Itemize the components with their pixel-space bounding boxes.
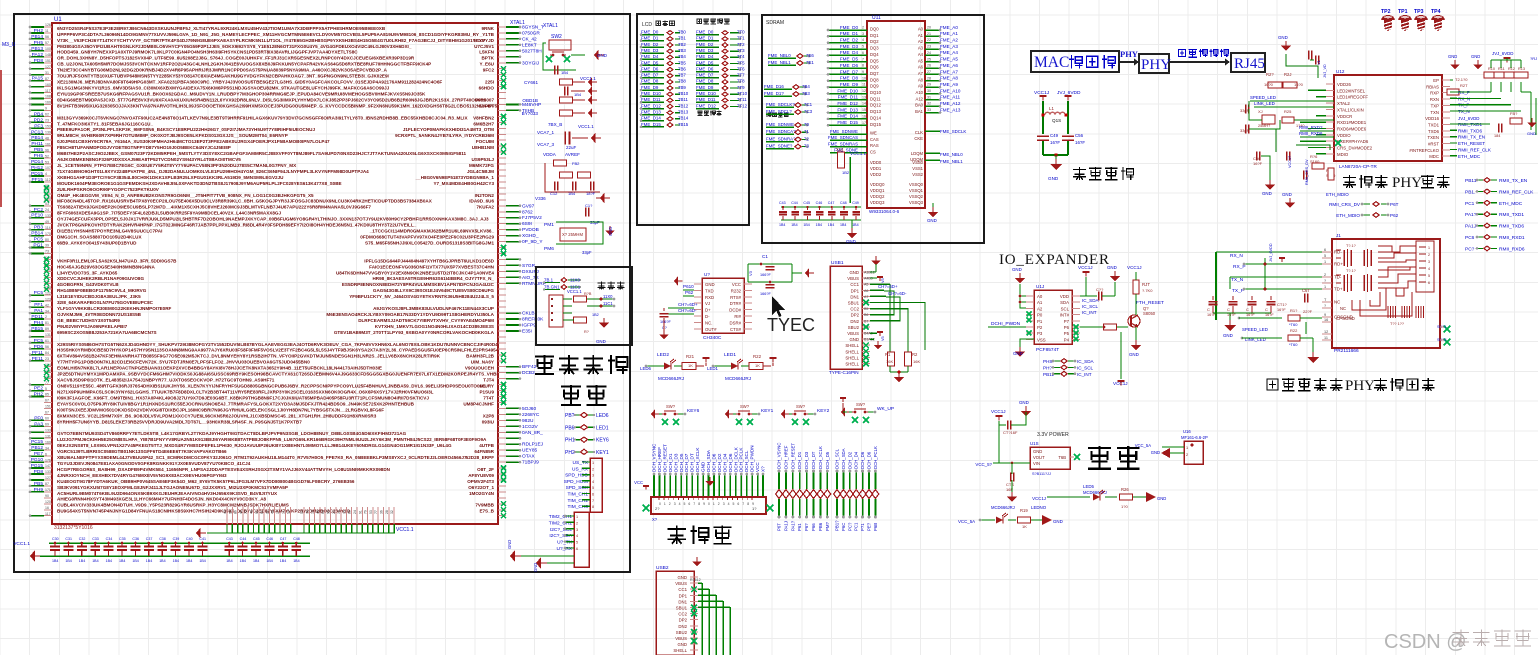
svg-text:TX_P: TX_P bbox=[1232, 288, 1244, 294]
svg-text:7B.GN1: 7B.GN1 bbox=[544, 285, 560, 290]
svg-text:FME_D9: FME_D9 bbox=[641, 85, 659, 90]
svg-text:SW?: SW? bbox=[796, 404, 806, 409]
svg-text:7: 7 bbox=[592, 499, 594, 503]
svg-text:EYIU19GP0FSREEB7USKG6RFPAGSVU1: EYIU19GP0FSREEB7USKG6RFPAGSVU1R_BK0OX62G… bbox=[57, 91, 426, 96]
svg-text:78: 78 bbox=[305, 510, 309, 514]
svg-text:VCC1.1: VCC1.1 bbox=[578, 124, 594, 129]
svg-text:RMII_RXD1: RMII_RXD1 bbox=[1499, 235, 1525, 241]
svg-text:7B3: 7B3 bbox=[678, 48, 686, 53]
svg-text:PF3: PF3 bbox=[34, 123, 43, 129]
svg-text:FME_D13: FME_D13 bbox=[837, 107, 858, 112]
svg-text:FME_A2: FME_A2 bbox=[940, 38, 958, 43]
svg-text:SPEED_LED: SPEED_LED bbox=[1242, 327, 1268, 332]
svg-text:DQ15: DQ15 bbox=[870, 122, 882, 127]
svg-text:IC_SCL: IC_SCL bbox=[1077, 365, 1094, 370]
svg-text:OM4P_HK4EGGVM_VE94_N_D_ANFB9UB: OM4P_HK4EGGVM_VE94_N_D_ANFB9UB2KONS7R9GO… bbox=[57, 193, 314, 198]
svg-text:FME_D8: FME_D8 bbox=[840, 76, 859, 81]
svg-text:2: 2 bbox=[862, 26, 864, 30]
svg-text:PD8: PD8 bbox=[34, 58, 44, 64]
svg-text:C40: C40 bbox=[186, 537, 193, 541]
svg-text:133: 133 bbox=[45, 428, 51, 432]
svg-text:EOMLHI5N7NK8L7LAR1NEP0ACTNPGEB: EOMLHI5N7NK8L7LAR1NEP0ACTNPGEBUAN31OEKP2… bbox=[57, 366, 382, 371]
svg-text:982U: 982U bbox=[522, 418, 534, 424]
svg-text:GND: GND bbox=[1048, 176, 1059, 181]
svg-text:56: 56 bbox=[45, 345, 49, 349]
svg-text:NC: NC bbox=[1334, 300, 1340, 305]
svg-text:DQ1: DQ1 bbox=[870, 33, 879, 38]
svg-text:L1: L1 bbox=[1049, 106, 1054, 111]
svg-text:KVTXHN_1MKV7LGOG1NO4N0HLIXAO14: KVTXHN_1MKV7LGOG1NO4N0HLIXAO14CD389JEE3S bbox=[375, 324, 494, 329]
svg-text:X?: X? bbox=[761, 466, 766, 472]
svg-text:US9P53LJ: US9P53LJ bbox=[472, 157, 495, 162]
svg-text:57: 57 bbox=[45, 41, 49, 45]
svg-text:FME_D5: FME_D5 bbox=[641, 60, 659, 65]
svg-text:170: 170 bbox=[45, 232, 51, 236]
svg-text:PB11: PB11 bbox=[1465, 178, 1477, 184]
svg-text:PB15: PB15 bbox=[31, 326, 43, 332]
svg-text:0AN_8R_: 0AN_8R_ bbox=[522, 430, 543, 436]
svg-text:42: 42 bbox=[239, 510, 243, 514]
svg-text:PD6: PD6 bbox=[34, 344, 44, 350]
svg-text:133: 133 bbox=[45, 470, 51, 474]
svg-text:CY661: CY661 bbox=[524, 80, 538, 85]
svg-text:VSS1: VSS1 bbox=[912, 166, 923, 171]
svg-text:FME_D1: FME_D1 bbox=[840, 31, 859, 36]
svg-text:D-: D- bbox=[705, 314, 710, 319]
svg-text:R?B: R?B bbox=[584, 292, 592, 296]
svg-text:XTAL1/CLKIN: XTAL1/CLKIN bbox=[1337, 107, 1364, 112]
svg-text:I2C?_SDA: I2C?_SDA bbox=[549, 533, 572, 539]
svg-text:P66: P66 bbox=[811, 523, 816, 531]
svg-text:NC: NC bbox=[1340, 306, 1346, 311]
svg-text:VJ: VJ bbox=[705, 301, 710, 306]
svg-text:VCA7_1: VCA7_1 bbox=[537, 130, 555, 135]
svg-text:7BX_B: 7BX_B bbox=[548, 122, 562, 127]
svg-text:28: 28 bbox=[927, 76, 931, 80]
svg-text:CKE: CKE bbox=[914, 136, 923, 141]
svg-text:P62: P62 bbox=[1390, 213, 1399, 218]
svg-text:GND: GND bbox=[1053, 519, 1063, 524]
svg-text:PHY: PHY bbox=[1392, 175, 1422, 191]
svg-text:PG15: PG15 bbox=[31, 463, 44, 469]
svg-text:DCH_D2: DCH_D2 bbox=[717, 453, 722, 472]
svg-text:53: 53 bbox=[45, 160, 49, 164]
svg-text:TXEN: TXEN bbox=[1428, 135, 1439, 140]
svg-text:C43: C43 bbox=[226, 537, 233, 541]
svg-text:127: 127 bbox=[45, 476, 51, 480]
svg-text:42: 42 bbox=[45, 303, 49, 307]
svg-text:FME_A6: FME_A6 bbox=[940, 63, 958, 68]
svg-text:19: 19 bbox=[311, 510, 315, 514]
svg-text:MCD666JRJ: MCD666JRJ bbox=[991, 505, 1015, 510]
svg-text:2: 2 bbox=[1186, 453, 1188, 457]
svg-text:FME_SDNWE: FME_SDNWE bbox=[830, 129, 858, 134]
svg-text:RD+: RD+ bbox=[1334, 262, 1343, 267]
svg-text:RXP: RXP bbox=[1430, 91, 1439, 96]
svg-text:77: 77 bbox=[45, 381, 49, 385]
svg-text:1: 1 bbox=[1324, 285, 1326, 289]
svg-text:TIM_CH1: TIM_CH1 bbox=[567, 492, 588, 498]
svg-text:6SXPYJD: 6SXPYJD bbox=[473, 38, 494, 43]
svg-text:0: 0 bbox=[708, 502, 710, 506]
svg-text:DCH_D4: DCH_D4 bbox=[722, 453, 727, 472]
svg-text:20: 20 bbox=[332, 510, 336, 514]
svg-text:1B4: 1B4 bbox=[803, 223, 809, 227]
svg-text:26: 26 bbox=[927, 64, 931, 68]
svg-text:R22: R22 bbox=[753, 354, 762, 359]
svg-text:C34: C34 bbox=[106, 537, 113, 541]
svg-text:9: 9 bbox=[752, 502, 754, 506]
svg-text:TYEC: TYEC bbox=[767, 315, 815, 335]
svg-text:JP2E6DTNUYMYX1MPDAMXPA_9SBVYDC: JP2E6DTNUYMYX1MPDAMXPA_9SBVYDCFM6GHM7VIO… bbox=[57, 372, 527, 377]
svg-text:PA1?: PA1? bbox=[1465, 212, 1477, 218]
svg-text:SW?: SW? bbox=[740, 404, 750, 409]
svg-text:LED1: LED1 bbox=[707, 366, 719, 371]
svg-text:79: 79 bbox=[364, 510, 368, 514]
svg-text:CLK: CLK bbox=[915, 130, 923, 135]
svg-text:160: 160 bbox=[45, 101, 51, 105]
svg-text:7B6: 7B6 bbox=[678, 66, 686, 71]
svg-text:TP4: TP4 bbox=[1431, 9, 1441, 15]
svg-text:XBUI6ALNEFFTPYXS9DEML44J7VBUU0: XBUI6ALNEFFTPYXS9DEML44J7VBUU0P42_SC1_8C… bbox=[57, 455, 467, 460]
svg-text:7T2: 7T2 bbox=[737, 42, 745, 47]
svg-text:PB12: PB12 bbox=[31, 445, 43, 451]
svg-text:7T0: 7T0 bbox=[737, 30, 745, 35]
svg-text:4JNRXIOYNCH_EEXHBX7DV4RYG476MX: 4JNRXIOYNCH_EEXHBX7DV4RYG476MXEV5VNG9X83… bbox=[57, 473, 227, 478]
svg-text:UEY85: UEY85 bbox=[522, 448, 538, 454]
svg-text:LED6: LED6 bbox=[640, 366, 652, 371]
svg-text:FME_SDNCAS: FME_SDNCAS bbox=[828, 135, 858, 140]
svg-text:Y7_MX4MDE4HB0GH42CY3: Y7_MX4MDE4HB0GH42CY3 bbox=[433, 181, 494, 186]
svg-text:RXER#PHYAD6: RXER#PHYAD6 bbox=[1337, 139, 1369, 144]
svg-text:24: 24 bbox=[353, 510, 357, 514]
svg-text:29: 29 bbox=[927, 83, 931, 87]
svg-text:16URY: 16URY bbox=[479, 384, 494, 389]
svg-text:FME_D13: FME_D13 bbox=[641, 109, 661, 114]
svg-text:FME_A0: FME_A0 bbox=[940, 25, 958, 30]
svg-text:TIM2_CH1: TIM2_CH1 bbox=[549, 514, 573, 520]
svg-text:JL_1CET59NRN_FTPG7EBC7EG6C_GXE: JL_1CET59NRN_FTPG7EBC7EG6C_GXEUE7Y5R4T8Y… bbox=[57, 163, 297, 168]
svg-text:SHELL: SHELL bbox=[845, 343, 859, 348]
svg-text:73: 73 bbox=[45, 250, 49, 254]
svg-text:7T3: 7T3 bbox=[737, 48, 745, 53]
svg-text:CB_U2JONLTA605H5MR7DOMJS53VCNT: CB_U2JONLTA605H5MR7DOMJS53VCNTCKNV1RFP2O… bbox=[57, 62, 431, 67]
svg-text:CC2: CC2 bbox=[850, 307, 859, 312]
svg-text:PVDOB: PVDOB bbox=[522, 227, 539, 233]
svg-text:GVTO7EBN7MU93SD4TV860RRFY7ETLD: GVTO7EBN7MU93SD4TV860RRFY7ETLDK5TB_L4K17… bbox=[57, 431, 407, 436]
svg-text:1B4: 1B4 bbox=[266, 559, 272, 563]
svg-text:151: 151 bbox=[45, 405, 51, 409]
svg-text:RMII_TXD1: RMII_TXD1 bbox=[1499, 212, 1524, 218]
svg-text:R21: R21 bbox=[686, 354, 695, 359]
svg-text:5: 5 bbox=[684, 502, 686, 506]
svg-text:FME_D7: FME_D7 bbox=[641, 73, 659, 78]
svg-text:SBU2: SBU2 bbox=[848, 325, 860, 330]
svg-text:K00TSNJXEEJDMVMO501OKXDSDX2VDK: K00TSNJXEEJDMVMO501OKXDSDX2VDKV0GI8TDIXB… bbox=[57, 407, 384, 412]
svg-text:M313GYV369K0CJT6VKNGO7NVOATF90: M313GYV369K0CJT6VKNGO7NVOATF90UC2AE4N8T6… bbox=[57, 115, 468, 120]
svg-text:VCC1?: VCC1? bbox=[1288, 156, 1292, 168]
svg-text:U1: U1 bbox=[54, 17, 62, 23]
svg-text:KEY6: KEY6 bbox=[687, 408, 700, 414]
svg-text:FME_SDCL?: FME_SDCL? bbox=[766, 109, 792, 114]
svg-text:X? 25MHM: X? 25MHM bbox=[562, 232, 583, 237]
svg-text:CC1: CC1 bbox=[850, 282, 859, 287]
svg-text:FME_A1: FME_A1 bbox=[940, 31, 958, 36]
svg-text:GND: GND bbox=[1262, 191, 1272, 196]
svg-text:FAIO1ECEONFVG036ONFI1VTX77UX5P: FAIO1ECEONFVG036ONFI1VTX77UX5P7XVBEST37C… bbox=[369, 264, 495, 269]
svg-text:VSS: VSS bbox=[1037, 337, 1046, 342]
svg-text:VDDIO: VDDIO bbox=[1337, 133, 1351, 138]
svg-text:RJT: RJT bbox=[1142, 282, 1150, 287]
svg-text:TIM_CH3: TIM_CH3 bbox=[567, 504, 588, 510]
svg-text:PC6: PC6 bbox=[1465, 235, 1475, 241]
svg-text:FME_D12: FME_D12 bbox=[641, 103, 661, 108]
svg-text:PD15: PD15 bbox=[31, 171, 43, 177]
svg-text:5: 5 bbox=[576, 541, 578, 545]
svg-text:11X0: 11X0 bbox=[570, 278, 580, 283]
svg-text:C??: C?? bbox=[1096, 287, 1104, 292]
svg-text:FJ7P5V2: FJ7P5V2 bbox=[522, 215, 542, 221]
svg-text:SPD_HSO: SPD_HSO bbox=[565, 473, 588, 479]
svg-text:RMII_TXD6: RMII_TXD6 bbox=[1499, 224, 1524, 230]
svg-text:1B4: 1B4 bbox=[65, 559, 71, 563]
svg-text:W9331064.0-6: W9331064.0-6 bbox=[869, 209, 900, 214]
svg-text:T_47MFKO3I6XTY1_81F5EBA6JG116C: T_47MFKO3I6XTY1_81F5EBA6JG116CG1U_ bbox=[57, 121, 153, 126]
svg-text:A2: A2 bbox=[1037, 306, 1043, 311]
svg-text:U?: U? bbox=[704, 272, 710, 277]
svg-text:UPPPP6VP3C4DTA7L36096N14DO9GMN: UPPPP6VP3C4DTA7L36096N14DO9GMNV77XUVVJ59… bbox=[57, 32, 479, 37]
svg-text:GND: GND bbox=[701, 461, 706, 472]
svg-text:PE2: PE2 bbox=[34, 386, 43, 392]
svg-text:PB14: PB14 bbox=[31, 231, 43, 237]
svg-text:91: 91 bbox=[358, 510, 362, 514]
svg-text:PE10: PE10 bbox=[31, 213, 43, 219]
svg-text:VBUS: VBUS bbox=[847, 276, 859, 281]
svg-text:8: 8 bbox=[592, 505, 594, 509]
svg-text:FME_NBL0: FME_NBL0 bbox=[768, 53, 791, 58]
svg-text:X2P8: X2P8 bbox=[483, 413, 495, 418]
svg-text:DP2: DP2 bbox=[851, 313, 860, 318]
svg-text:PA12: PA12 bbox=[32, 52, 44, 58]
svg-text:FME_D2: FME_D2 bbox=[641, 42, 659, 47]
svg-text:16K: 16K bbox=[886, 359, 893, 364]
svg-text:3: 3 bbox=[592, 474, 594, 478]
svg-text:11: 11 bbox=[1324, 336, 1328, 340]
svg-text:O8T_2F: O8T_2F bbox=[477, 467, 494, 472]
svg-text:VCC_5?: VCC_5? bbox=[975, 462, 992, 467]
svg-text:FME_D4: FME_D4 bbox=[840, 50, 859, 55]
svg-text:33pF: 33pF bbox=[1240, 108, 1250, 113]
svg-text:0750GR: 0750GR bbox=[522, 30, 540, 36]
svg-text:20: 20 bbox=[927, 26, 931, 30]
svg-text:P610: P610 bbox=[683, 284, 694, 289]
svg-text:C: C bbox=[1207, 307, 1210, 312]
svg-text:GND: GND bbox=[705, 282, 715, 287]
svg-text:DCH_VSYNC: DCH_VSYNC bbox=[652, 443, 657, 472]
svg-text:P5: P5 bbox=[1064, 331, 1070, 336]
svg-text:PE7: PE7 bbox=[34, 451, 43, 457]
svg-text:HR98_8K3AESA5TRGE9HR63S61I4IB8: HR98_8K3AESA5TRGE9HR63S61I4IB8R4_OJY7TFX… bbox=[372, 276, 494, 281]
svg-text:ETH_MDIO: ETH_MDIO bbox=[1326, 192, 1349, 197]
svg-text:TXP: TXP bbox=[1431, 103, 1439, 108]
svg-text:C: C bbox=[1227, 307, 1230, 312]
svg-text:DQ12: DQ12 bbox=[870, 103, 882, 108]
svg-text:114: 114 bbox=[45, 226, 51, 230]
svg-text:IPFLG15DG944PJ44404N497XYHTB6G: IPFLG15DG944PJ44404N497XYHTB6GJPRBT6ULKD… bbox=[364, 258, 494, 263]
svg-text:USB1: USB1 bbox=[831, 260, 844, 266]
svg-text:15: 15 bbox=[862, 108, 866, 112]
svg-text:GND: GND bbox=[608, 227, 613, 236]
svg-text:7T7: 7T7 bbox=[737, 73, 745, 78]
svg-text:TP2: TP2 bbox=[1381, 9, 1391, 15]
svg-text:WE: WE bbox=[870, 131, 877, 136]
svg-text:10: 10 bbox=[862, 76, 866, 80]
svg-text:DCB2: DCB2 bbox=[522, 370, 535, 376]
svg-text:MFO8CN4DL45TOP_RX16UUSRVB4TPX8: MFO8CN4DL45TOP_RX16UUSRVB4TPX8Y0ECP2ILOU… bbox=[57, 199, 433, 204]
svg-text:1B4: 1B4 bbox=[574, 92, 582, 97]
svg-text:DCD#: DCD# bbox=[729, 308, 741, 313]
svg-text:PF11: PF11 bbox=[32, 350, 43, 356]
svg-text:RTS#: RTS# bbox=[730, 295, 742, 300]
svg-text:0: 0 bbox=[659, 502, 661, 506]
svg-text:GND: GND bbox=[927, 218, 937, 223]
svg-text:C45: C45 bbox=[253, 537, 260, 541]
svg-text:H0C45AJGB29V63OG5E34I0H8MNB8NG: H0C45AJGB29V63OG5E34I0H8MNB8NGNNA bbox=[57, 264, 155, 269]
svg-text:PD8: PD8 bbox=[34, 469, 44, 475]
svg-text:PF15: PF15 bbox=[32, 177, 44, 183]
svg-text:DCH_D3: DCH_D3 bbox=[804, 451, 809, 469]
svg-text:FME_D12: FME_D12 bbox=[837, 101, 858, 106]
svg-text:FME_D7: FME_D7 bbox=[696, 73, 714, 78]
svg-text:7B12: 7B12 bbox=[678, 103, 689, 108]
svg-text:VSSQ3: VSSQ3 bbox=[909, 200, 924, 205]
svg-text:VGRC5139TLBRRISC0588GTB01NK13S: VGRC5139TLBRRISC0588GTB01NK13SGFF6TD4E6E… bbox=[57, 449, 227, 454]
svg-text:8YRHH5F7UN6YYB_D815LEKE73RB25V: 8YRHH5F7UN6YYB_D815LEKE73RB25VVDRJD9UVA2… bbox=[57, 419, 302, 424]
svg-text:P9U02VMYPSJA09NPKELAPBI7: P9U02VMYPSJA09NPKELAPBI7 bbox=[57, 324, 128, 329]
svg-text:GND: GND bbox=[1151, 450, 1160, 455]
svg-text:C6T: C6T bbox=[1302, 288, 1310, 293]
svg-text:120: 120 bbox=[45, 500, 51, 504]
svg-text:184: 184 bbox=[1494, 134, 1500, 138]
svg-text:U1J: U1J bbox=[1036, 284, 1044, 289]
svg-text:8: 8 bbox=[747, 502, 749, 506]
svg-text:TD-: TD- bbox=[1334, 275, 1342, 280]
svg-text:P6T: P6T bbox=[777, 523, 782, 531]
svg-text:IC_SCL: IC_SCL bbox=[1082, 304, 1099, 309]
svg-text:VSS0: VSS0 bbox=[912, 160, 923, 165]
svg-text:168: 168 bbox=[45, 95, 51, 99]
svg-text:FME_D3: FME_D3 bbox=[641, 48, 659, 53]
svg-text:ETH_RESET: ETH_RESET bbox=[1458, 141, 1485, 146]
svg-text:46: 46 bbox=[316, 510, 320, 514]
svg-text:TXD: TXD bbox=[705, 288, 714, 293]
svg-text:GND: GND bbox=[1278, 35, 1288, 40]
svg-text:FME_NBL0: FME_NBL0 bbox=[940, 152, 963, 157]
svg-text:66B9_AYK6YO0415Y43IUP0D1BYUD: 66B9_AYK6YO0415Y43IUP0D1BYUD bbox=[57, 240, 137, 245]
svg-text:PA1: PA1 bbox=[34, 308, 43, 314]
svg-text:FME_A11: FME_A11 bbox=[940, 95, 961, 100]
svg-text:7B2: 7B2 bbox=[678, 42, 686, 47]
svg-text:BAMH3FL2B: BAMH3FL2B bbox=[466, 354, 495, 359]
svg-text:PB14: PB14 bbox=[31, 34, 43, 40]
svg-text:161: 161 bbox=[45, 142, 51, 146]
svg-text:PA3: PA3 bbox=[34, 421, 43, 427]
svg-text:1: 1 bbox=[592, 461, 594, 465]
svg-text:PB?: PB? bbox=[565, 413, 575, 419]
svg-text:DQ10: DQ10 bbox=[870, 90, 882, 95]
svg-text:1: 1 bbox=[664, 502, 666, 506]
svg-text:89: 89 bbox=[45, 327, 49, 331]
svg-text:A7: A7 bbox=[918, 71, 924, 76]
svg-text:48: 48 bbox=[271, 510, 275, 514]
svg-text:DN2: DN2 bbox=[678, 624, 687, 629]
svg-text:RD-: RD- bbox=[1334, 250, 1342, 255]
svg-text:*T60: *T60 bbox=[1289, 322, 1298, 327]
svg-text:DMG1CH_SOAS8807DO105U2D4KLUX: DMG1CH_SOAS8807DO105U2D4KLUX bbox=[57, 235, 142, 240]
svg-text:VCC1J: VCC1J bbox=[1032, 496, 1046, 501]
svg-text:RXD6#MODE6: RXD6#MODE6 bbox=[1337, 126, 1367, 131]
svg-text:FME_D6: FME_D6 bbox=[696, 66, 714, 71]
svg-text:FB2: FB2 bbox=[572, 161, 580, 166]
svg-text:7T11: 7T11 bbox=[737, 97, 747, 102]
svg-text:E7S_B: E7S_B bbox=[479, 509, 494, 514]
svg-text:FME_D14: FME_D14 bbox=[641, 116, 661, 121]
svg-text:7B8: 7B8 bbox=[678, 79, 686, 84]
svg-text:148: 148 bbox=[45, 53, 51, 57]
svg-text:FME_D8: FME_D8 bbox=[641, 79, 659, 84]
svg-text:MCD666JRJ: MCD666JRJ bbox=[725, 376, 751, 381]
svg-text:16?F: 16?F bbox=[1075, 140, 1085, 145]
svg-text:MDIO: MDIO bbox=[1337, 152, 1349, 157]
svg-text:PB5: PB5 bbox=[34, 147, 43, 153]
svg-text:1?: 1? bbox=[752, 506, 757, 511]
svg-text:1?0: 1?0 bbox=[1121, 504, 1128, 509]
svg-text:I2C?_SCL: I2C?_SCL bbox=[550, 527, 572, 533]
svg-text:SPD_SCK: SPD_SCK bbox=[566, 485, 589, 491]
svg-text:B5: B5 bbox=[864, 307, 868, 311]
svg-text:F85CH8TUFANMDPODJVYDET8GTNFPYD: F85CH8TUFANMDPODJVYDET8GTNFPYD87Y5HO19J0… bbox=[57, 145, 231, 150]
svg-text:P4: P4 bbox=[1064, 337, 1070, 342]
svg-text:87: 87 bbox=[45, 482, 49, 486]
svg-text:PG1: PG1 bbox=[33, 243, 43, 249]
svg-text:14: 14 bbox=[862, 102, 866, 106]
svg-text:6: 6 bbox=[1324, 248, 1326, 252]
svg-text:16?0: 16?0 bbox=[1264, 82, 1274, 87]
svg-text:1B4: 1B4 bbox=[280, 559, 286, 563]
svg-text:H3S5HK0YRMB0CBE6D7HYKOP14S7HY9: H3S5HK0YRMB0CBE6D7HYKOP14S7HY9SN113SOANN… bbox=[57, 348, 508, 353]
svg-text:DN1: DN1 bbox=[678, 599, 687, 604]
svg-text:US_RX: US_RX bbox=[572, 466, 589, 472]
svg-text:17: 17 bbox=[276, 510, 280, 514]
svg-text:GND: GND bbox=[1129, 352, 1139, 357]
svg-text:V73K__V63FCH26YT14TKYYCHTYVYF_: V73K__V63FCH26YT14TKYYCHTYVYF_GCT8R7PTK4… bbox=[57, 38, 486, 43]
svg-text:L31E1EYIDUCBDJG8A3EULJPK_J3K5: L31E1EYIDUCBDJG8A3EULJPK_J3K5 bbox=[57, 294, 141, 299]
svg-text:2: 2 bbox=[718, 502, 720, 506]
svg-text:CPSGND: CPSGND bbox=[1336, 316, 1355, 321]
svg-text:A0: A0 bbox=[918, 27, 924, 32]
svg-text:7B13: 7B13 bbox=[678, 109, 689, 114]
svg-text:4UTFB: 4UTFB bbox=[479, 443, 494, 448]
svg-text:1B4: 1B4 bbox=[79, 559, 85, 563]
svg-text:C1: C1 bbox=[762, 254, 768, 259]
svg-text:A0: A0 bbox=[1037, 294, 1043, 299]
svg-text:WK_UP: WK_UP bbox=[877, 406, 894, 412]
svg-text:M6BI7HE2P2ASCJ9O2JBEX_GSM07I23: M6BI7HE2P2ASCJ9O2JBEX_GSM07I23F72KDM5RPE… bbox=[57, 151, 467, 156]
svg-text:VCC1.1: VCC1.1 bbox=[396, 527, 414, 533]
svg-text:139: 139 bbox=[45, 130, 51, 134]
svg-text:FME_NBL1: FME_NBL1 bbox=[768, 60, 791, 65]
svg-text:DCH_D7: DCH_D7 bbox=[684, 453, 689, 472]
